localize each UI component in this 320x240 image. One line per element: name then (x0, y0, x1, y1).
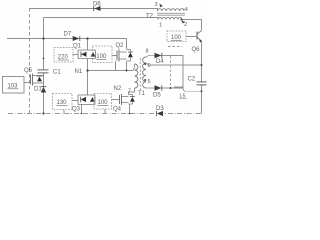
wire top outer (30, 9, 158, 12)
transistor Q3 (72, 95, 95, 113)
diode D7 (64, 31, 80, 41)
svg-text:C1: C1 (53, 70, 61, 76)
diode D6 (93, 2, 101, 11)
wire Q3 gate (73, 100, 79, 102)
svg-text:Q6: Q6 (192, 47, 201, 53)
diode D3 (156, 106, 164, 116)
svg-text:T2: T2 (146, 14, 154, 20)
diode D4 (155, 53, 165, 65)
wire D5 line (162, 87, 184, 89)
svg-text:D3: D3 (156, 106, 164, 112)
wire T2 secondary2 right (182, 20, 202, 30)
block 103 (3, 77, 25, 94)
wire inner top (44, 18, 159, 20)
winding dot 5 (144, 79, 146, 81)
svg-text:D5: D5 (153, 93, 161, 99)
boundary dash-dot vertical left (29, 8, 31, 114)
diode D5 (153, 85, 162, 98)
transformer T2 primary winding (158, 9, 184, 12)
transistor Q5 (24, 68, 44, 86)
svg-text:D4: D4 (156, 59, 164, 65)
terminal 2 arrow (182, 21, 186, 24)
wire Q5 gate (24, 82, 30, 84)
wire T1 primary bottom to Q4 (129, 88, 135, 95)
block 100 (top) (93, 46, 113, 63)
inductor L5 (174, 87, 187, 100)
transformer T2 core (157, 13, 185, 15)
transistor Q4 (113, 94, 135, 113)
svg-text:Q2: Q2 (116, 43, 125, 49)
wire T1 secondary bottom stub to D5 (146, 87, 155, 89)
wire T1 tap6 stub (146, 63, 149, 65)
wire main input (7, 38, 127, 40)
block 100 (right) (167, 31, 186, 42)
wire 130 box stub (63, 110, 65, 114)
svg-text:C2: C2 (188, 76, 196, 82)
svg-text:D1: D1 (34, 87, 42, 93)
svg-text:2: 2 (184, 22, 187, 28)
transformer T1 primary winding N2 (135, 64, 138, 88)
wire Q4 source down (129, 105, 131, 114)
svg-text:8: 8 (146, 49, 149, 55)
wire Q6 gate (186, 36, 197, 38)
svg-text:N1: N1 (75, 69, 83, 75)
terminal 3 arrow (160, 4, 163, 8)
boundary dash vertical output block (170, 56, 172, 87)
wire tap 6 line (149, 64, 202, 66)
svg-text:N2: N2 (114, 86, 122, 92)
boundary dash-dot bottom (8, 113, 201, 115)
boundary dash segment under right block (168, 46, 182, 48)
wire bottom 100 box stub (104, 109, 106, 114)
node junction dots (42, 18, 202, 114)
wire node line to T1 (88, 70, 134, 72)
wire L5 output line (183, 89, 202, 92)
svg-text:Q4: Q4 (113, 107, 122, 113)
wire N1 column (87, 59, 89, 95)
wire Q2 source (126, 62, 128, 71)
wire T1 jog from node line (133, 64, 135, 71)
svg-text:6: 6 (148, 63, 151, 69)
block 130 (53, 94, 73, 110)
transformer T2 secondary winding (158, 17, 182, 19)
transistor Q2 (116, 43, 133, 62)
wire T1 secondary top stub to D4 (146, 56, 155, 58)
wire Q6 source rail (201, 41, 203, 114)
transformer T1 secondary winding (143, 57, 146, 88)
svg-text:Q3: Q3 (72, 107, 81, 113)
svg-text:3: 3 (155, 2, 158, 8)
wire Q2 gate (112, 55, 117, 57)
capacitor C2 (188, 76, 207, 85)
block 220 (54, 48, 73, 63)
svg-text:4: 4 (185, 7, 188, 13)
wire D4 line right (162, 56, 184, 89)
transistor Q6 (192, 29, 202, 53)
svg-text:D7: D7 (64, 31, 72, 37)
transformer T1 core (139, 58, 141, 90)
winding dot 6 (144, 63, 146, 65)
svg-text:D6: D6 (93, 2, 101, 8)
svg-text:1: 1 (159, 23, 162, 29)
diode D1 (34, 87, 46, 93)
svg-text:T1: T1 (138, 91, 146, 97)
transistor Q1 (73, 43, 96, 58)
wire left rail (43, 18, 45, 114)
block 100 (bottom) (94, 94, 112, 110)
svg-text:7: 7 (128, 89, 131, 95)
wire Q2 driver return stub (115, 61, 117, 71)
wire Q3 source down (81, 105, 83, 114)
wire Q1 drain drop (87, 39, 89, 51)
wire Q2 drain drop (126, 39, 128, 50)
svg-text:Q5: Q5 (24, 68, 33, 74)
svg-text:5: 5 (148, 79, 151, 85)
svg-text:Q1: Q1 (73, 43, 82, 49)
capacitor C1 (38, 70, 62, 76)
wire Q4 gate (112, 99, 120, 101)
wire Q1 gate (73, 54, 79, 56)
